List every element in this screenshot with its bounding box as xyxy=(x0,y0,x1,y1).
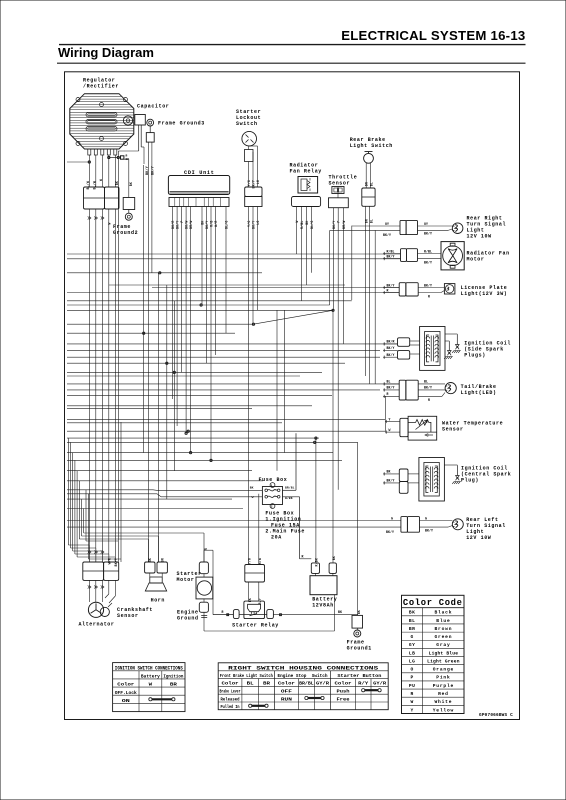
svg-text:Battery: Battery xyxy=(141,674,160,680)
wire H34 xyxy=(67,498,232,500)
throttle sensor pin labels xyxy=(332,221,346,229)
wire H20 xyxy=(67,395,332,397)
wire BK/R to ignition coil side xyxy=(383,340,398,346)
svg-text:Y: Y xyxy=(411,707,414,713)
wire BK/Y to rear right turn signal xyxy=(330,230,400,237)
svg-text:BK/Y: BK/Y xyxy=(424,283,432,287)
svg-text:Color: Color xyxy=(117,682,134,688)
wire V32 xyxy=(385,396,387,432)
svg-text:BK/Y: BK/Y xyxy=(425,529,433,533)
wires into relay connector xyxy=(247,494,262,565)
starter relay label xyxy=(232,623,279,629)
wire R to starter relay xyxy=(213,610,267,615)
connector starter motor top xyxy=(199,562,208,574)
horn label xyxy=(151,598,165,604)
svg-text:BL: BL xyxy=(247,681,254,687)
license plate light xyxy=(444,284,455,294)
wire V5 xyxy=(166,285,168,499)
regulator output wires xyxy=(88,149,117,187)
wire capacitor to junction xyxy=(118,147,144,164)
svg-text:Pink: Pink xyxy=(436,675,450,681)
radiator fan motor xyxy=(441,242,464,270)
central spark plug xyxy=(444,465,461,484)
svg-text:Starter Relay: Starter Relay xyxy=(232,623,279,629)
rear right turn signal bulb xyxy=(452,223,463,234)
svg-text:Push: Push xyxy=(337,689,350,695)
svg-text:Light Green: Light Green xyxy=(427,658,460,664)
connector radiator fan motor xyxy=(401,249,418,262)
svg-text:BK: BK xyxy=(338,610,342,614)
wire V14 xyxy=(210,207,212,461)
starter lockout switch symbol xyxy=(242,131,257,146)
wire W to water temp sensor xyxy=(385,428,400,434)
svg-text:Sensor: Sensor xyxy=(442,427,464,433)
wire V13 xyxy=(206,207,208,364)
svg-text:Frame Ground3: Frame Ground3 xyxy=(158,121,205,127)
wires rear brake switch xyxy=(365,163,374,188)
svg-text:Purple: Purple xyxy=(433,683,454,689)
frame ground2 label xyxy=(113,224,138,236)
svg-text:Free: Free xyxy=(337,696,350,702)
svg-text:BK/Y: BK/Y xyxy=(387,479,395,483)
CDI unit box xyxy=(168,176,229,207)
svg-text:BR/W: BR/W xyxy=(189,221,193,229)
svg-text:Capacitor: Capacitor xyxy=(137,104,169,110)
svg-text:12V8Ah: 12V8Ah xyxy=(312,603,334,609)
svg-text:GY/R: GY/R xyxy=(316,681,329,687)
ignition coil central label xyxy=(461,466,511,484)
svg-text:LG: LG xyxy=(409,658,415,664)
wire stub from left border xyxy=(67,161,90,163)
svg-text:BR/BL: BR/BL xyxy=(285,486,295,490)
svg-text:Gray: Gray xyxy=(436,642,450,648)
wire BK/Y to ignition coil central xyxy=(383,479,399,485)
junction dots xyxy=(143,272,317,462)
svg-text:ON: ON xyxy=(122,698,130,704)
svg-text:BR: BR xyxy=(263,681,270,687)
wire H21 xyxy=(67,405,312,407)
svg-text:BR: BR xyxy=(409,626,415,632)
horn xyxy=(145,573,166,591)
svg-text:Front Brake Light Switch: Front Brake Light Switch xyxy=(220,673,273,679)
svg-text:Pulled In: Pulled In xyxy=(221,704,240,710)
wire H10 xyxy=(67,323,254,325)
wire H30 xyxy=(67,470,252,472)
svg-text:Plug): Plug) xyxy=(461,478,479,484)
svg-text:BK: BK xyxy=(148,558,152,562)
wire V3 xyxy=(151,162,153,273)
svg-text:BR: BR xyxy=(170,682,177,688)
wire H33 xyxy=(67,493,157,495)
regulator/rectifier body xyxy=(70,94,134,149)
wire R to tail/brake light xyxy=(383,392,399,398)
svg-text:R: R xyxy=(387,288,389,292)
svg-text:Plugs): Plugs) xyxy=(464,353,486,359)
wire H27 xyxy=(67,441,358,443)
alternator phase marks xyxy=(88,551,118,604)
connector rear right turn signal xyxy=(400,220,418,234)
page title xyxy=(341,28,525,43)
ignition coil side spark plugs assembly xyxy=(420,327,445,371)
svg-text:O: O xyxy=(411,667,414,673)
wire V2 xyxy=(147,162,149,562)
wire V28 xyxy=(351,226,353,300)
svg-text:BK: BK xyxy=(305,221,309,225)
svg-text:P: P xyxy=(337,221,341,223)
section title Wiring Diagram xyxy=(58,45,154,60)
svg-text:Yellow: Yellow xyxy=(433,707,454,713)
svg-text:BK/Y: BK/Y xyxy=(386,530,394,534)
rear brake pin labels xyxy=(365,219,374,223)
CDI unit label xyxy=(184,170,215,176)
svg-text:BL/W: BL/W xyxy=(93,181,97,189)
svg-text:W/BK: W/BK xyxy=(285,496,293,500)
svg-text:Ground: Ground xyxy=(177,616,199,622)
svg-text:BK/R: BK/R xyxy=(171,221,175,229)
radiator fan relay label xyxy=(290,163,322,175)
wire D4 xyxy=(74,460,76,554)
wire V27 xyxy=(342,208,344,344)
svg-text:Fan Relay: Fan Relay xyxy=(290,169,322,175)
wire H6 xyxy=(67,292,399,294)
diagram frame xyxy=(65,72,520,720)
wire V1 xyxy=(143,165,145,453)
svg-text:BR/BL: BR/BL xyxy=(299,681,314,687)
wire H14 xyxy=(67,356,380,358)
wire staircase to bottom connectors xyxy=(68,533,204,562)
throttle sensor symbol xyxy=(329,187,349,208)
svg-text:R/Y: R/Y xyxy=(358,681,368,687)
svg-text:LG: LG xyxy=(256,221,260,225)
svg-text:Brown: Brown xyxy=(435,626,453,632)
wire V15 xyxy=(215,207,217,356)
svg-text:BK/Y: BK/Y xyxy=(252,221,256,229)
svg-text:W: W xyxy=(252,496,254,499)
wire H32 xyxy=(67,489,153,491)
svg-text:Red: Red xyxy=(438,691,449,697)
wire H22 xyxy=(67,408,252,410)
svg-text:R: R xyxy=(222,610,224,614)
starter relay side connectors xyxy=(227,610,282,619)
svg-text:BK/W: BK/W xyxy=(185,221,189,229)
svg-text:BK/Y: BK/Y xyxy=(424,260,432,264)
fan relay pin labels xyxy=(295,221,314,229)
svg-text:BK/Y: BK/Y xyxy=(387,346,395,350)
wire D9 xyxy=(85,490,87,541)
alternator xyxy=(88,602,103,617)
svg-text:W: W xyxy=(149,682,153,688)
wire V23 xyxy=(311,207,313,273)
wire H8 xyxy=(67,304,330,306)
wire V24 xyxy=(329,230,331,305)
svg-text:BK: BK xyxy=(357,610,361,614)
wire R battery stub xyxy=(300,554,312,558)
wire D3 xyxy=(72,453,74,551)
svg-text:Released: Released xyxy=(221,696,240,702)
wire V33 xyxy=(315,438,317,563)
svg-text:Switch: Switch xyxy=(236,121,258,127)
header rule xyxy=(59,44,526,46)
rear brake light switch symbol xyxy=(364,152,374,164)
svg-text:Light Blue: Light Blue xyxy=(429,650,459,656)
wire H29 xyxy=(67,459,342,461)
svg-text:Brake Lever: Brake Lever xyxy=(220,690,241,695)
wire labels BL/W BL/W W BK xyxy=(86,179,119,189)
wire V38 xyxy=(284,310,286,452)
battery terminals xyxy=(311,556,336,573)
svg-text:BK/Y: BK/Y xyxy=(387,386,395,390)
wire BK/Y to ignition coil side b xyxy=(383,353,398,359)
wire BK/Y to license plate light xyxy=(383,283,399,289)
spark plug 2 xyxy=(445,334,461,353)
svg-text:Fuse Box: Fuse Box xyxy=(259,477,288,483)
svg-text:P: P xyxy=(411,675,414,681)
wire BK/Y pair from frame ground3 xyxy=(145,142,156,175)
svg-text:W: W xyxy=(99,179,103,181)
svg-text:G: G xyxy=(411,634,414,640)
wire H35 xyxy=(67,508,243,510)
wires connector to license plate light xyxy=(418,283,444,298)
svg-text:G: G xyxy=(425,516,427,520)
svg-text:IGNITION SWITCH CONNECTIONS: IGNITION SWITCH CONNECTIONS xyxy=(115,665,183,671)
table color code xyxy=(402,595,465,713)
wire BK starter relay to frame ground1 xyxy=(273,610,357,614)
wire H3 xyxy=(67,272,262,274)
water temperature sensor label xyxy=(442,421,503,433)
wire H24 xyxy=(67,422,282,424)
svg-text:RIGHT SWITCH HOUSING CONNECTIO: RIGHT SWITCH HOUSING CONNECTIONS xyxy=(228,665,379,672)
wires connector to rear left bulb xyxy=(420,516,453,532)
wire V21 xyxy=(300,207,302,301)
connector starter lockout xyxy=(245,187,262,207)
svg-text:BL: BL xyxy=(387,380,391,384)
svg-text:Starter Button: Starter Button xyxy=(337,673,381,679)
wire H28 xyxy=(67,452,333,454)
wire H5 xyxy=(152,287,399,289)
svg-text:1: 1 xyxy=(271,485,273,488)
wire V18 xyxy=(252,207,254,325)
svg-text:BK/Y: BK/Y xyxy=(114,558,118,566)
svg-text:Black: Black xyxy=(435,610,453,616)
connector horn xyxy=(145,558,168,573)
svg-text:GY/R: GY/R xyxy=(373,681,386,687)
svg-text:R/BL: R/BL xyxy=(300,221,304,229)
svg-text:BK/Y: BK/Y xyxy=(387,353,395,357)
wire V20 xyxy=(296,207,298,255)
svg-text:W: W xyxy=(108,223,112,225)
junction node N/BK xyxy=(108,155,130,162)
table ignition switch connections xyxy=(113,663,185,712)
frame ground3 terminal xyxy=(146,119,154,142)
svg-text:R/BL: R/BL xyxy=(387,249,395,253)
wire BK into fuse box xyxy=(153,487,262,491)
node BK/Y spider junction xyxy=(252,309,334,325)
frame ground1 label xyxy=(347,640,372,652)
wire W/BK from fuse box xyxy=(283,496,300,559)
wire R to license plate light xyxy=(383,288,399,294)
svg-text:GY: GY xyxy=(424,222,428,226)
wire BK/Y to tail/brake light xyxy=(383,386,399,392)
table right switch housing connections xyxy=(218,663,388,710)
svg-text:/Rectifier: /Rectifier xyxy=(83,84,119,90)
svg-text:RUN: RUN xyxy=(281,696,292,702)
wire H17 xyxy=(67,375,300,377)
crankshaft sensor label xyxy=(117,607,153,619)
wire V37 xyxy=(120,422,122,559)
svg-text:BK/Y: BK/Y xyxy=(145,165,150,175)
wire H18 xyxy=(67,383,399,385)
wire V8 xyxy=(176,207,178,427)
svg-text:Light(LED): Light(LED) xyxy=(461,390,497,396)
starter motor label xyxy=(177,571,202,583)
wire V39 xyxy=(276,310,278,470)
wire H25 xyxy=(67,430,385,432)
svg-text:BL/W: BL/W xyxy=(86,181,90,189)
wire BL to tail/brake light xyxy=(383,380,399,386)
svg-text:R: R xyxy=(387,392,389,396)
connectors ignition coil central xyxy=(399,469,419,493)
svg-text:BK/Y: BK/Y xyxy=(205,221,209,229)
wire D7 xyxy=(81,499,83,536)
wire D2 xyxy=(70,442,72,548)
frame ground1 xyxy=(352,610,363,637)
section rule xyxy=(57,62,526,64)
svg-text:BK: BK xyxy=(332,556,336,560)
wire H1 xyxy=(67,253,401,255)
svg-text:G: G xyxy=(391,516,393,520)
battery label xyxy=(312,597,337,609)
svg-text:R/W: R/W xyxy=(258,558,262,564)
svg-text:BK: BK xyxy=(387,470,391,474)
svg-text:Light Switch: Light Switch xyxy=(350,143,393,149)
wire V11 xyxy=(190,207,192,453)
svg-text:2: 2 xyxy=(271,506,273,509)
wire V29 xyxy=(365,206,367,376)
svg-text:Green: Green xyxy=(435,634,453,640)
svg-text:LB: LB xyxy=(409,650,415,656)
wire H15 xyxy=(67,362,345,364)
svg-text:Horn: Horn xyxy=(151,598,165,604)
wire W into fuse box xyxy=(157,494,262,499)
frame ground3 label xyxy=(158,121,205,127)
engine ground2 label xyxy=(177,610,207,622)
svg-text:BK: BK xyxy=(248,598,252,602)
wire R from starter motor xyxy=(204,548,213,615)
water temperature sensor (thermistor) xyxy=(408,416,437,440)
svg-text:GY: GY xyxy=(409,642,415,648)
connector water temp sensor xyxy=(400,418,408,436)
svg-text:Color: Color xyxy=(278,681,295,687)
svg-text:12V 10W: 12V 10W xyxy=(467,234,492,240)
wire D8 xyxy=(83,509,85,534)
svg-text:Sensor: Sensor xyxy=(329,181,351,187)
connectors ignition coil side xyxy=(398,338,410,359)
starter motor xyxy=(196,574,213,599)
fuse box xyxy=(262,483,282,509)
svg-text:GP07066BWS C: GP07066BWS C xyxy=(479,713,513,718)
wire D1 xyxy=(67,438,69,545)
connector starter relay harness xyxy=(245,565,265,583)
wire V10 xyxy=(185,207,187,434)
svg-text:R: R xyxy=(411,691,414,697)
svg-text:W/R: W/R xyxy=(107,558,111,564)
svg-text:BL: BL xyxy=(409,618,415,624)
tail/brake light bulb xyxy=(445,383,456,394)
wire D5 xyxy=(76,471,78,557)
wires connector to rear right bulb xyxy=(418,222,453,236)
svg-text:BL: BL xyxy=(424,380,428,384)
connector alternator xyxy=(83,562,119,580)
wire H13 xyxy=(67,349,380,351)
wires to ignition coil side xyxy=(410,341,420,354)
wire V16 xyxy=(225,207,227,334)
wire H19 xyxy=(67,389,380,391)
rear left turn signal label xyxy=(466,517,506,541)
ignition coil central assembly xyxy=(419,458,445,502)
wire V6 xyxy=(173,301,175,471)
wire GY to rear right turn signal xyxy=(352,222,400,226)
svg-text:Ground1: Ground1 xyxy=(347,646,372,652)
ignition coil side label xyxy=(464,341,511,359)
svg-text:CDI Unit: CDI Unit xyxy=(184,170,215,176)
wire BR/BL from fuse box xyxy=(283,433,297,490)
svg-text:BK/Y: BK/Y xyxy=(150,165,155,175)
CDI pin labels xyxy=(171,221,228,229)
svg-text:BK/Y: BK/Y xyxy=(424,232,432,236)
battery xyxy=(310,573,337,594)
svg-text:W/R: W/R xyxy=(214,221,218,227)
starter relay xyxy=(244,601,265,619)
radiator fan relay box xyxy=(298,177,318,194)
svg-text:Light(12V 3W): Light(12V 3W) xyxy=(461,291,508,297)
connector tail/brake light xyxy=(399,380,418,400)
wire V7 xyxy=(172,207,174,400)
svg-text:BK: BK xyxy=(250,487,254,490)
wire D10 xyxy=(87,494,89,559)
license plate light label xyxy=(461,285,508,297)
wire V30 xyxy=(369,206,371,384)
svg-text:BK/Y: BK/Y xyxy=(387,254,395,258)
svg-text:R: R xyxy=(302,554,304,558)
svg-text:BL/G: BL/G xyxy=(225,221,229,229)
svg-text:P: P xyxy=(180,221,184,223)
svg-text:PU: PU xyxy=(409,683,415,689)
svg-text:Color Code: Color Code xyxy=(403,598,463,608)
crankshaft sensor xyxy=(100,603,112,617)
wire H11 xyxy=(67,332,235,334)
connector rear left turn signal xyxy=(401,517,420,533)
wire V22 xyxy=(306,207,308,286)
wire R/BL to radiator fan motor xyxy=(383,249,401,255)
svg-text:Sensor: Sensor xyxy=(117,613,139,619)
wire BK/Y to radiator fan motor xyxy=(383,254,401,260)
svg-text:W: W xyxy=(389,428,391,432)
wire engine ground to battery minus xyxy=(204,595,335,631)
svg-text:R: R xyxy=(428,398,430,402)
wire Y to water temp sensor xyxy=(385,417,400,423)
svg-text:R/B: R/B xyxy=(210,221,214,227)
svg-text:Engine Stop Switch: Engine Stop Switch xyxy=(278,673,328,679)
wire H9 xyxy=(67,309,329,311)
svg-text:BL: BL xyxy=(369,219,373,223)
svg-text:Alternator: Alternator xyxy=(79,622,115,628)
svg-text:BK/Y: BK/Y xyxy=(424,386,432,390)
svg-text:BK/Y: BK/Y xyxy=(176,221,180,229)
svg-text:Y/G: Y/G xyxy=(247,221,251,227)
wire V25 xyxy=(332,208,334,311)
rear right turn signal label xyxy=(467,216,507,240)
svg-text:BL/G: BL/G xyxy=(310,221,314,229)
